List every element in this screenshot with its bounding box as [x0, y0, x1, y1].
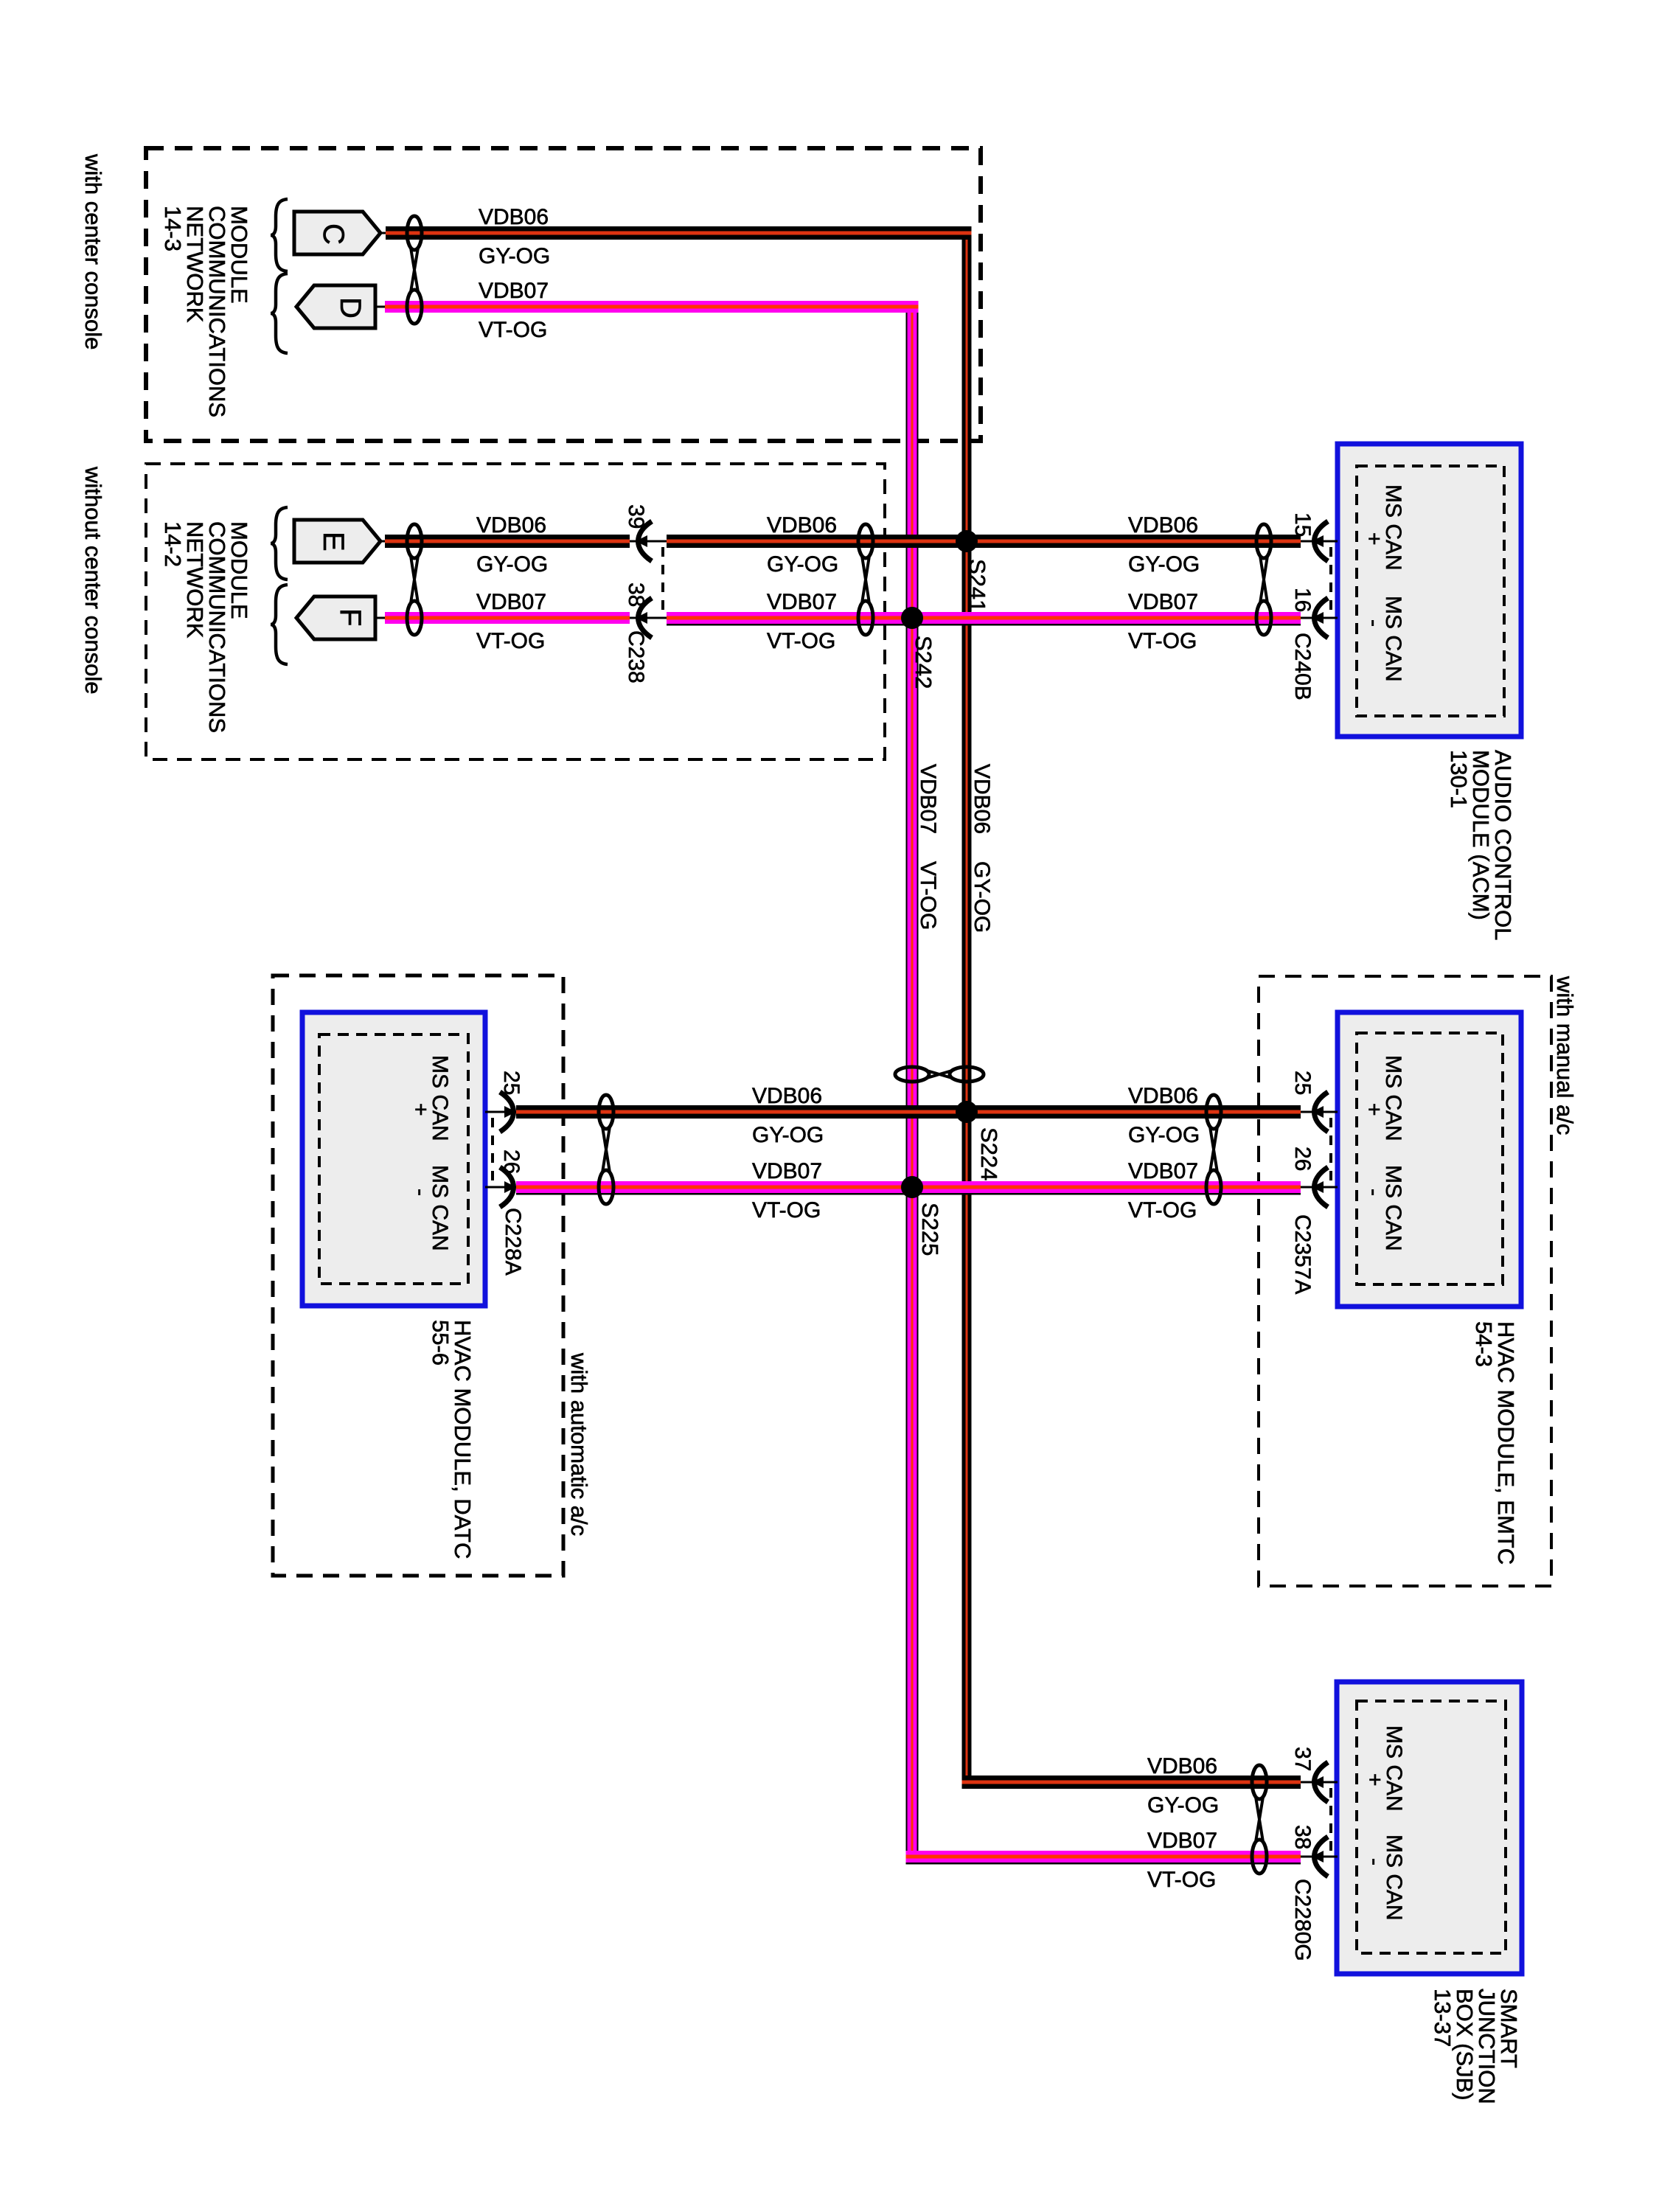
wire: VDB06 GY-OG row E seg1: [385, 535, 630, 548]
svg-text:VT-OG: VT-OG: [1128, 1198, 1197, 1222]
svg-text:VDB06: VDB06: [752, 1084, 822, 1108]
svg-text:with automatic a/c: with automatic a/c: [566, 1352, 592, 1536]
wire lead: flag F to wire: [375, 617, 389, 619]
svg-text:VT-OG: VT-OG: [916, 861, 940, 930]
wire lead: SJB pin 37: [1301, 1781, 1338, 1784]
splice S224: [956, 1101, 1002, 1180]
wire: VDB06 GY-OG vertical trunk: [962, 226, 972, 1789]
svg-text:VT-OG: VT-OG: [476, 629, 545, 653]
svg-text:VT-OG: VT-OG: [479, 318, 547, 342]
svg-text:VT-OG: VT-OG: [1147, 1868, 1216, 1892]
svg-text:C2280G: C2280G: [1290, 1879, 1315, 1961]
wire lead: flag D to wire: [375, 306, 389, 308]
svg-text:VDB06: VDB06: [767, 513, 837, 538]
svg-text:VDB07: VDB07: [1128, 1159, 1198, 1183]
module box: HVAC MODULE EMTC: [1338, 1012, 1521, 1307]
svg-text:E: E: [317, 532, 349, 552]
svg-text:VDB06: VDB06: [970, 764, 994, 834]
svg-text:VDB06: VDB06: [1128, 1084, 1198, 1108]
svg-text:GY-OG: GY-OG: [476, 552, 548, 577]
twisted pair symbol: rows E/F at ACM: [1256, 524, 1271, 635]
svg-text:C238: C238: [624, 630, 648, 684]
brace at connector D: [271, 274, 288, 353]
wire: VDB06 GY-OG row C: [386, 226, 972, 240]
twisted pair symbol: HVAC row right: [1206, 1095, 1221, 1204]
module box: HVAC MODULE DATC: [302, 1012, 485, 1306]
svg-text:S225: S225: [917, 1203, 943, 1256]
svg-text:with center console: with center console: [80, 153, 106, 349]
wire lead: EMTC pin 25: [1301, 1111, 1338, 1113]
splice S242: [901, 607, 936, 689]
twisted pair symbol: rows E/F at connector: [407, 524, 422, 635]
svg-text:VDB06: VDB06: [1147, 1754, 1217, 1778]
svg-text:VDB07: VDB07: [1128, 590, 1198, 614]
svg-text:F: F: [334, 608, 366, 626]
wire: VDB07 VT-OG HVAC row: [516, 1181, 1301, 1195]
svg-text:S241: S241: [964, 559, 990, 612]
inner dashed: SJB: [1357, 1701, 1506, 1953]
wire lead: SJB pin 38: [1301, 1856, 1338, 1858]
twisted pair symbol: rows C/D: [407, 216, 422, 324]
twisted pair symbol: HVAC row left: [599, 1095, 613, 1204]
svg-text:38: 38: [624, 582, 648, 607]
svg-text:GY-OG: GY-OG: [1128, 1123, 1200, 1147]
wire: VDB07 VT-OG SJB row: [906, 1851, 1301, 1865]
wire: VDB07 VT-OG vertical trunk: [906, 301, 919, 1863]
svg-text:VDB07: VDB07: [479, 279, 549, 303]
inner dashed: DATC: [319, 1034, 468, 1284]
twisted pair symbol: rows E/F mid: [858, 524, 873, 635]
svg-text:C240B: C240B: [1290, 633, 1315, 700]
svg-text:S224: S224: [976, 1127, 1002, 1180]
svg-text:C: C: [317, 223, 349, 245]
dashed option box: without center console: [146, 464, 885, 759]
splice S241: [956, 530, 990, 612]
svg-text:37: 37: [1290, 1747, 1315, 1771]
wire: VDB06 GY-OG SJB row: [962, 1775, 1301, 1789]
connector flag E: [294, 520, 380, 563]
brace at connector C: [271, 199, 288, 271]
DATC pin connector C228A: [491, 1118, 494, 1184]
dashed option box: with automatic a/c: [273, 975, 563, 1576]
svg-text:VT-OG: VT-OG: [1128, 629, 1197, 653]
connector flag D: [296, 285, 375, 328]
brace at connector E: [271, 507, 288, 580]
wire lead: flag C to wire: [380, 232, 391, 234]
inner dashed: ACM: [1357, 466, 1504, 716]
svg-text:VT-OG: VT-OG: [752, 1198, 821, 1222]
svg-text:26: 26: [1290, 1147, 1315, 1171]
connector flag F: [296, 597, 375, 639]
wire lead: through connector C238 pin 39: [630, 540, 667, 543]
svg-text:without center console: without center console: [80, 466, 106, 694]
svg-text:C2357A: C2357A: [1290, 1214, 1315, 1294]
svg-text:VDB06: VDB06: [476, 513, 546, 538]
svg-text:15: 15: [1290, 512, 1315, 537]
svg-text:GY-OG: GY-OG: [1128, 552, 1200, 577]
dashed option box: with center console: [146, 148, 981, 441]
wire: VDB07 VT-OG row F seg1: [385, 612, 630, 624]
svg-text:GY-OG: GY-OG: [752, 1123, 824, 1147]
svg-text:D: D: [334, 297, 366, 319]
module box: SMART JUNCTION BOX SJB: [1337, 1682, 1522, 1974]
wire lead: through connector C238 pin 38: [630, 617, 667, 619]
twisted pair symbol: vertical trunks: [895, 1067, 984, 1082]
svg-text:S242: S242: [911, 636, 936, 689]
svg-text:39: 39: [624, 504, 648, 529]
twisted pair symbol: SJB row: [1252, 1765, 1267, 1874]
wire: VDB06 GY-OG row E seg2: [667, 535, 1301, 548]
wire lead: ACM pin 15: [1301, 540, 1338, 543]
SJB pin connector C2280G: [1329, 1788, 1332, 1854]
svg-text:38: 38: [1290, 1825, 1315, 1849]
svg-text:VDB06: VDB06: [1128, 513, 1198, 538]
svg-text:VT-OG: VT-OG: [767, 629, 835, 653]
wire lead: DATC pin 26: [485, 1186, 521, 1189]
svg-text:GY-OG: GY-OG: [767, 552, 838, 577]
splice S225: [901, 1176, 943, 1256]
module box: AUDIO CONTROL MODULE (ACM): [1338, 444, 1521, 737]
EMTC pin connector C2357A: [1329, 1118, 1332, 1184]
svg-text:VDB06: VDB06: [479, 205, 549, 229]
svg-text:VDB07: VDB07: [476, 590, 546, 614]
svg-text:VDB07: VDB07: [916, 764, 940, 834]
dashed option box: with manual a/c: [1259, 976, 1551, 1586]
svg-text:25: 25: [1290, 1071, 1315, 1095]
svg-text:with manual a/c: with manual a/c: [1552, 975, 1578, 1135]
inner dashed: EMTC: [1357, 1033, 1503, 1284]
svg-text:C228A: C228A: [501, 1208, 525, 1276]
wire lead: EMTC pin 26: [1301, 1186, 1338, 1189]
svg-text:25: 25: [499, 1071, 524, 1095]
svg-text:VDB07: VDB07: [752, 1159, 822, 1183]
svg-text:GY-OG: GY-OG: [1147, 1793, 1219, 1818]
svg-text:16: 16: [1290, 588, 1315, 612]
wire lead: ACM pin 16: [1301, 617, 1338, 619]
ACM pin connector C240B: [1329, 547, 1332, 615]
svg-text:VDB07: VDB07: [767, 590, 837, 614]
svg-text:VDB07: VDB07: [1147, 1829, 1217, 1853]
svg-text:GY-OG: GY-OG: [970, 861, 994, 933]
svg-text:26: 26: [499, 1150, 524, 1174]
brace at connector F: [271, 585, 288, 664]
wire: VDB06 GY-OG HVAC row: [516, 1105, 1301, 1119]
svg-text:GY-OG: GY-OG: [479, 244, 550, 268]
connector flag C: [294, 212, 380, 254]
inline connector C238 arrows pins 39/38: [661, 547, 664, 615]
wire: VDB07 VT-OG row F seg2: [667, 612, 1301, 626]
wire lead: DATC pin 25: [485, 1111, 521, 1113]
wire: VDB07 VT-OG row D: [385, 301, 919, 313]
wire lead: flag E to wire: [380, 540, 391, 543]
